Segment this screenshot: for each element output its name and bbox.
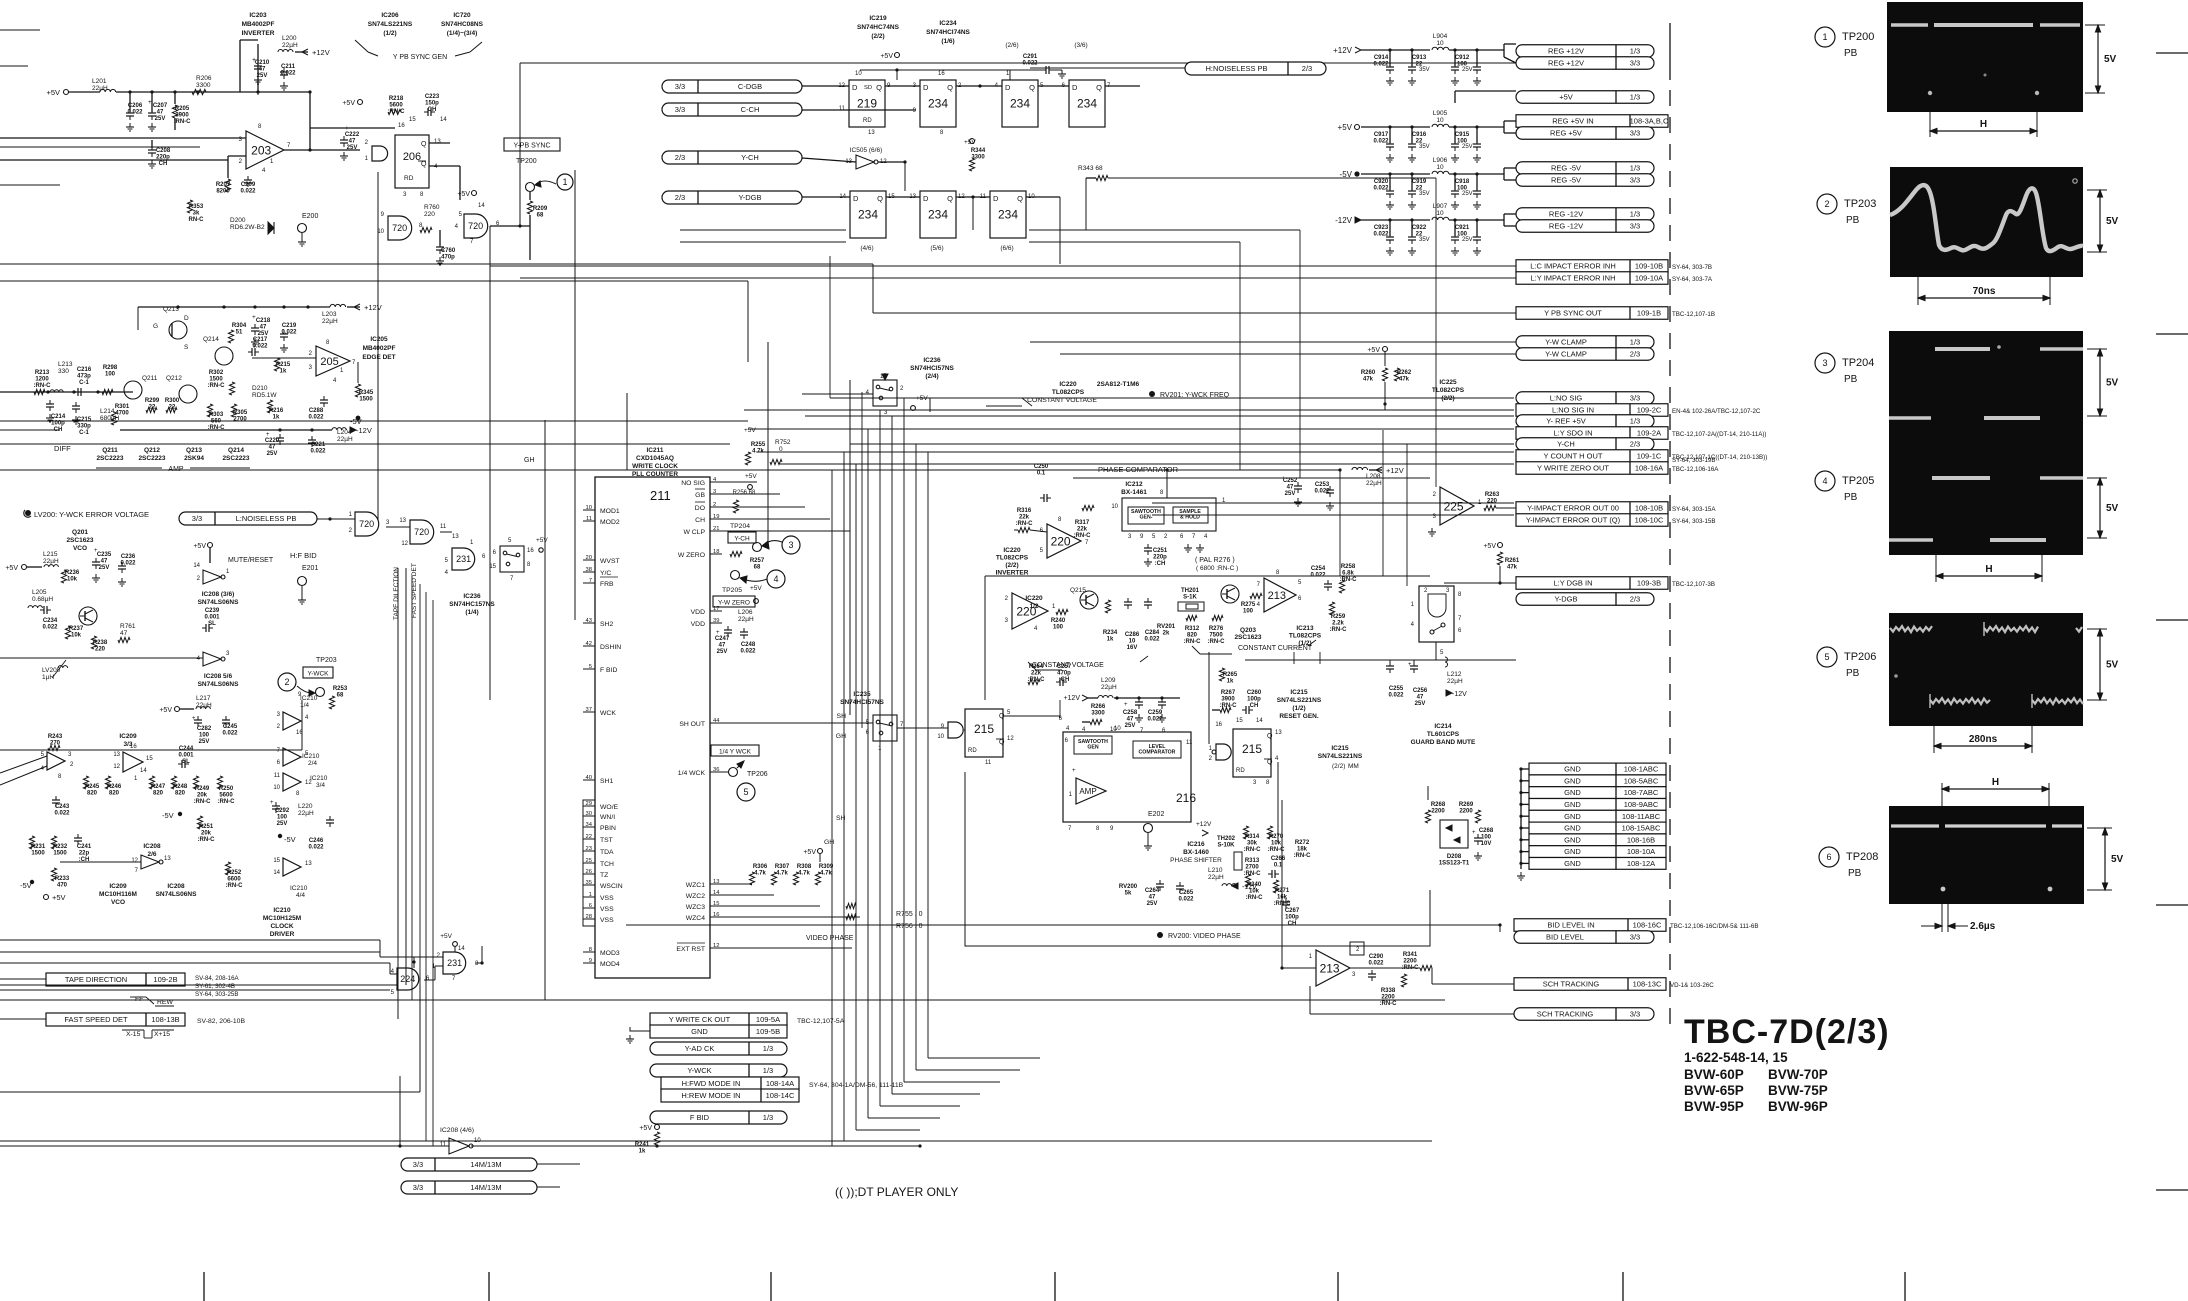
svg-text:SN74HC157NS: SN74HC157NS bbox=[449, 601, 495, 608]
svg-text:IC720: IC720 bbox=[453, 12, 471, 19]
svg-text:C244: C244 bbox=[179, 746, 194, 752]
svg-text:1k: 1k bbox=[1227, 679, 1234, 685]
svg-text:470p: 470p bbox=[441, 255, 455, 261]
svg-text:5: 5 bbox=[1824, 652, 1829, 662]
svg-text:GND: GND bbox=[1564, 847, 1581, 856]
svg-text:L214: L214 bbox=[100, 408, 115, 415]
svg-text:+: + bbox=[192, 716, 196, 722]
svg-text:C234: C234 bbox=[43, 618, 58, 624]
svg-text:(2/2): (2/2) bbox=[1005, 562, 1018, 569]
svg-text:IC215: IC215 bbox=[1331, 745, 1349, 752]
svg-text:R243: R243 bbox=[48, 734, 63, 740]
svg-text:1/3: 1/3 bbox=[1630, 338, 1640, 347]
svg-text:IC210: IC210 bbox=[273, 907, 291, 914]
svg-text:PB: PB bbox=[1844, 48, 1858, 59]
svg-text:C919: C919 bbox=[1412, 179, 1427, 185]
svg-text:D: D bbox=[993, 194, 999, 203]
svg-text:1: 1 bbox=[562, 177, 567, 187]
svg-text:RD: RD bbox=[968, 748, 977, 754]
svg-text:22µH: 22µH bbox=[196, 702, 212, 709]
svg-text:10V: 10V bbox=[1481, 841, 1492, 847]
svg-text:22µH: 22µH bbox=[337, 436, 353, 443]
svg-text:RD: RD bbox=[1236, 768, 1245, 774]
svg-text:PHASE SHIFTER: PHASE SHIFTER bbox=[1170, 857, 1222, 864]
svg-text:+5V: +5V bbox=[745, 473, 757, 480]
svg-text:C246: C246 bbox=[309, 838, 324, 844]
svg-text:SN74HC74NS: SN74HC74NS bbox=[857, 24, 900, 31]
svg-text:RV200: RV200 bbox=[1119, 884, 1138, 890]
svg-text:+5V: +5V bbox=[536, 537, 548, 544]
svg-text:+12V: +12V bbox=[1063, 695, 1080, 702]
svg-text:R259: R259 bbox=[1331, 614, 1346, 620]
svg-text:R756 . 0: R756 . 0 bbox=[896, 923, 923, 930]
svg-text:Y PB SYNC GEN: Y PB SYNC GEN bbox=[393, 54, 447, 61]
svg-text:2: 2 bbox=[284, 677, 289, 687]
svg-text:2.2k: 2.2k bbox=[1332, 621, 1344, 627]
svg-text:IC210: IC210 bbox=[310, 775, 328, 782]
svg-text:C235: C235 bbox=[97, 552, 112, 558]
svg-text:6.8k: 6.8k bbox=[1342, 571, 1354, 577]
svg-text:R267: R267 bbox=[1221, 690, 1236, 696]
svg-text:C217: C217 bbox=[253, 337, 268, 343]
svg-text:TBC-12,107-1B: TBC-12,107-1B bbox=[1672, 311, 1715, 318]
svg-text:30k: 30k bbox=[1247, 841, 1258, 847]
svg-text:Q211: Q211 bbox=[142, 375, 158, 382]
svg-text:100p: 100p bbox=[1247, 697, 1261, 703]
svg-text:100: 100 bbox=[1481, 835, 1492, 841]
svg-text:4: 4 bbox=[773, 574, 778, 584]
svg-text:5V: 5V bbox=[2104, 54, 2117, 65]
svg-text:IC208 5/6: IC208 5/6 bbox=[204, 673, 233, 680]
svg-text:NO SIG: NO SIG bbox=[681, 480, 705, 487]
svg-text:GND: GND bbox=[1564, 859, 1581, 868]
svg-text:H:NOISELESS PB: H:NOISELESS PB bbox=[1205, 64, 1267, 73]
svg-text:H:REW MODE IN: H:REW MODE IN bbox=[681, 1091, 740, 1100]
svg-text:22µH: 22µH bbox=[1208, 874, 1224, 881]
svg-text:R345: R345 bbox=[359, 390, 374, 396]
svg-text:R234: R234 bbox=[1103, 630, 1118, 636]
svg-text:3300: 3300 bbox=[1091, 711, 1105, 717]
svg-text:(( ));DT PLAYER ONLY: (( ));DT PLAYER ONLY bbox=[835, 1185, 958, 1199]
svg-text:WZC1: WZC1 bbox=[686, 882, 705, 889]
svg-text:WCK: WCK bbox=[600, 710, 616, 717]
svg-text:10: 10 bbox=[1436, 210, 1444, 217]
svg-text:0.022: 0.022 bbox=[1310, 573, 1326, 579]
svg-text:SN74LS221NS: SN74LS221NS bbox=[1318, 753, 1363, 760]
svg-text:13: 13 bbox=[113, 752, 120, 758]
svg-text:Q201: Q201 bbox=[72, 529, 88, 536]
svg-text:L904: L904 bbox=[1433, 33, 1448, 40]
svg-text:IC210: IC210 bbox=[300, 695, 318, 702]
svg-text:R241: R241 bbox=[635, 1142, 650, 1148]
svg-text:IC208 (4/6): IC208 (4/6) bbox=[440, 1127, 474, 1134]
svg-text:+: + bbox=[345, 125, 349, 132]
svg-text:R260: R260 bbox=[1361, 370, 1376, 376]
svg-text:35V: 35V bbox=[1419, 237, 1430, 243]
svg-text:47: 47 bbox=[349, 139, 356, 145]
svg-text:(2/6): (2/6) bbox=[1005, 42, 1018, 49]
svg-text:SN74HCI74NS: SN74HCI74NS bbox=[926, 29, 970, 36]
svg-text:C912: C912 bbox=[1455, 55, 1470, 61]
svg-text:109-1C: 109-1C bbox=[1637, 452, 1662, 461]
svg-text:Q: Q bbox=[1029, 83, 1035, 92]
svg-text:F BID: F BID bbox=[600, 667, 617, 674]
svg-text:47: 47 bbox=[1287, 485, 1294, 491]
svg-text:C914: C914 bbox=[1374, 55, 1389, 61]
svg-text:R265: R265 bbox=[1223, 672, 1238, 678]
svg-text:R341: R341 bbox=[1403, 952, 1418, 958]
svg-text::RN-C: :RN-C bbox=[1330, 627, 1348, 633]
svg-text:3/3: 3/3 bbox=[1630, 1010, 1640, 1019]
svg-text:TP205: TP205 bbox=[1842, 475, 1874, 487]
svg-text:2200: 2200 bbox=[1459, 809, 1473, 815]
svg-text:108-7ABC: 108-7ABC bbox=[1624, 788, 1659, 797]
svg-text:TP205: TP205 bbox=[722, 587, 742, 594]
svg-text:205: 205 bbox=[320, 356, 338, 368]
svg-text:H:F BID: H:F BID bbox=[290, 551, 317, 560]
svg-text:2700: 2700 bbox=[233, 417, 247, 423]
svg-text:100: 100 bbox=[277, 815, 288, 821]
svg-text:1500: 1500 bbox=[359, 397, 373, 403]
svg-text:SY-64, 303-19B: SY-64, 303-19B bbox=[1672, 457, 1715, 464]
svg-text:2200: 2200 bbox=[1431, 809, 1445, 815]
svg-text:R306: R306 bbox=[753, 864, 768, 870]
svg-text:R255: R255 bbox=[751, 442, 766, 448]
svg-text:C255: C255 bbox=[1389, 686, 1404, 692]
svg-text:0.022: 0.022 bbox=[1178, 897, 1194, 903]
svg-text:L906: L906 bbox=[1433, 157, 1448, 164]
svg-text:MB4002PF: MB4002PF bbox=[242, 21, 275, 28]
svg-text:68: 68 bbox=[337, 693, 344, 699]
svg-text::RN-C: :RN-C bbox=[1244, 871, 1262, 877]
svg-text:5V: 5V bbox=[2111, 854, 2124, 865]
svg-text:16V: 16V bbox=[1127, 645, 1138, 651]
svg-text:D210: D210 bbox=[252, 385, 268, 392]
svg-text:25V: 25V bbox=[99, 565, 110, 571]
svg-text:820: 820 bbox=[153, 791, 164, 797]
svg-text:C223: C223 bbox=[425, 94, 440, 100]
svg-text:3/3: 3/3 bbox=[413, 1183, 423, 1192]
svg-text:L203: L203 bbox=[322, 311, 337, 318]
svg-text:C254: C254 bbox=[1311, 566, 1326, 572]
svg-text:BID LEVEL: BID LEVEL bbox=[1546, 933, 1584, 942]
svg-text:C208: C208 bbox=[156, 148, 171, 154]
svg-text:D: D bbox=[923, 83, 929, 92]
svg-text:1k: 1k bbox=[273, 415, 280, 421]
svg-text:1k: 1k bbox=[639, 1149, 646, 1155]
svg-text:IC205: IC205 bbox=[370, 336, 388, 343]
svg-text:1k: 1k bbox=[1107, 637, 1114, 643]
svg-text:C267: C267 bbox=[1285, 908, 1300, 914]
svg-text::RN-C: :RN-C bbox=[174, 119, 192, 125]
svg-text:1/3: 1/3 bbox=[1630, 93, 1640, 102]
svg-text:R209: R209 bbox=[533, 206, 548, 212]
svg-text:5600: 5600 bbox=[389, 103, 403, 109]
svg-text:Y/C: Y/C bbox=[600, 570, 611, 577]
svg-text:10: 10 bbox=[937, 734, 944, 740]
svg-text:GND: GND bbox=[691, 1027, 708, 1036]
svg-text:47: 47 bbox=[260, 325, 267, 331]
svg-text:IC219: IC219 bbox=[869, 15, 887, 22]
svg-text:TCH: TCH bbox=[600, 861, 614, 868]
svg-text:VCO: VCO bbox=[111, 899, 125, 906]
svg-text:+5V: +5V bbox=[5, 565, 18, 572]
svg-text:C260: C260 bbox=[1247, 690, 1262, 696]
svg-text:108-11ABC: 108-11ABC bbox=[1622, 812, 1661, 821]
svg-text:S-1K: S-1K bbox=[1183, 595, 1197, 601]
svg-text:GND: GND bbox=[1564, 800, 1581, 809]
svg-text:R761: R761 bbox=[120, 623, 136, 630]
svg-text:C291: C291 bbox=[1023, 54, 1038, 60]
svg-text:470: 470 bbox=[57, 883, 68, 889]
svg-text:S-10K: S-10K bbox=[1217, 843, 1235, 849]
svg-text:25V: 25V bbox=[1285, 491, 1296, 497]
svg-text:720: 720 bbox=[359, 519, 374, 529]
svg-text:2SC1623: 2SC1623 bbox=[1234, 634, 1261, 641]
svg-text:2/3: 2/3 bbox=[1630, 440, 1640, 449]
svg-text:100: 100 bbox=[1243, 609, 1254, 615]
svg-text::RN-C: :RN-C bbox=[1268, 847, 1286, 853]
svg-text:213: 213 bbox=[1268, 590, 1286, 602]
svg-text:+5V: +5V bbox=[1483, 543, 1496, 550]
svg-text:25V: 25V bbox=[155, 116, 166, 122]
svg-text:+12V: +12V bbox=[364, 303, 382, 312]
svg-text:C-1: C-1 bbox=[79, 380, 89, 386]
svg-text:GND: GND bbox=[1564, 776, 1581, 785]
svg-text:RD5.1W: RD5.1W bbox=[252, 392, 277, 399]
svg-text:SY-64, 303-25B: SY-64, 303-25B bbox=[195, 991, 238, 998]
svg-text:R299: R299 bbox=[145, 398, 160, 404]
svg-text:F BID: F BID bbox=[690, 1113, 710, 1122]
svg-text:11: 11 bbox=[274, 773, 281, 779]
svg-text:R272: R272 bbox=[1295, 840, 1310, 846]
svg-text:AMP: AMP bbox=[1079, 787, 1096, 796]
svg-text:3/3: 3/3 bbox=[192, 514, 202, 523]
svg-text:R338: R338 bbox=[1381, 988, 1396, 994]
svg-text:C239: C239 bbox=[205, 608, 220, 614]
svg-text:PB: PB bbox=[1844, 492, 1858, 503]
svg-text:PB: PB bbox=[1844, 374, 1858, 385]
svg-text:C241: C241 bbox=[77, 844, 92, 850]
svg-text:GH: GH bbox=[824, 839, 834, 846]
svg-text:R263: R263 bbox=[1485, 492, 1500, 498]
svg-text:TL082CPS: TL082CPS bbox=[1052, 389, 1085, 396]
svg-text:C913: C913 bbox=[1412, 55, 1427, 61]
svg-text:TP203: TP203 bbox=[1844, 198, 1876, 210]
svg-text:C922: C922 bbox=[1412, 225, 1427, 231]
svg-text:47k: 47k bbox=[1399, 377, 1410, 383]
svg-text:1/3: 1/3 bbox=[1630, 417, 1640, 426]
svg-text:IC208: IC208 bbox=[167, 883, 185, 890]
svg-text:5V: 5V bbox=[2106, 660, 2119, 671]
svg-text:0.022: 0.022 bbox=[740, 649, 756, 655]
svg-text:MOD4: MOD4 bbox=[600, 961, 620, 968]
svg-text:-12V: -12V bbox=[356, 426, 372, 435]
svg-text:3/4: 3/4 bbox=[316, 782, 325, 789]
svg-text:3k: 3k bbox=[193, 211, 200, 217]
svg-text:L209: L209 bbox=[1101, 677, 1116, 684]
svg-text:BX-1460: BX-1460 bbox=[1183, 849, 1209, 856]
svg-text:211: 211 bbox=[650, 488, 671, 503]
svg-text:CXD1045AQ: CXD1045AQ bbox=[636, 455, 674, 462]
svg-text:C256: C256 bbox=[1413, 688, 1428, 694]
svg-text:PB: PB bbox=[1848, 868, 1862, 879]
svg-text:L210: L210 bbox=[1208, 867, 1223, 874]
svg-text:L:Y IMPACT ERROR INH: L:Y IMPACT ERROR INH bbox=[1530, 274, 1615, 283]
svg-text:108-13B: 108-13B bbox=[151, 1015, 179, 1024]
svg-text:+: + bbox=[716, 630, 720, 636]
svg-text:C-CH: C-CH bbox=[741, 105, 760, 114]
svg-text:108-15ABC: 108-15ABC bbox=[1622, 824, 1661, 833]
svg-text:330: 330 bbox=[58, 368, 69, 375]
svg-text:1/3: 1/3 bbox=[763, 1113, 773, 1122]
svg-text:0.022: 0.022 bbox=[1022, 61, 1038, 67]
svg-text:C251: C251 bbox=[1153, 548, 1168, 554]
svg-text:16: 16 bbox=[527, 548, 534, 554]
svg-text:Q212: Q212 bbox=[144, 447, 160, 454]
svg-text:R298: R298 bbox=[103, 365, 118, 371]
svg-text:3/3: 3/3 bbox=[1630, 129, 1640, 138]
svg-text:16: 16 bbox=[1215, 722, 1222, 728]
svg-text:1-622-548-14, 15: 1-622-548-14, 15 bbox=[1684, 1050, 1788, 1065]
svg-text:220: 220 bbox=[424, 211, 435, 218]
svg-text:VCO: VCO bbox=[73, 545, 87, 552]
svg-text:13: 13 bbox=[452, 534, 459, 540]
svg-text:BVW-70P: BVW-70P bbox=[1768, 1067, 1828, 1082]
svg-text:+: + bbox=[1408, 662, 1412, 668]
svg-text:14M/13M: 14M/13M bbox=[470, 1160, 501, 1169]
svg-text:47: 47 bbox=[269, 445, 276, 451]
svg-text:+: + bbox=[1472, 830, 1476, 836]
svg-text:H: H bbox=[1985, 564, 1992, 575]
svg-text:109-2A: 109-2A bbox=[1637, 429, 1661, 438]
svg-text:25V: 25V bbox=[1462, 191, 1473, 197]
svg-text:R213: R213 bbox=[35, 370, 50, 376]
svg-text:47k: 47k bbox=[1507, 565, 1518, 571]
svg-text:D: D bbox=[1005, 83, 1011, 92]
svg-text:14: 14 bbox=[273, 870, 280, 876]
svg-text:13: 13 bbox=[305, 861, 312, 867]
svg-text:Q: Q bbox=[421, 141, 427, 148]
svg-text:Q213: Q213 bbox=[186, 447, 202, 454]
svg-text:C-1: C-1 bbox=[79, 430, 89, 436]
svg-text:Q: Q bbox=[947, 194, 953, 203]
svg-text:47: 47 bbox=[157, 110, 164, 116]
svg-text:-12V: -12V bbox=[1242, 884, 1257, 891]
svg-text:10: 10 bbox=[1436, 164, 1444, 171]
svg-text:+5V: +5V bbox=[52, 893, 66, 902]
svg-text:1k: 1k bbox=[280, 369, 287, 375]
svg-text:MUTE/RESET: MUTE/RESET bbox=[228, 557, 274, 564]
svg-text:68: 68 bbox=[754, 565, 761, 571]
svg-text:22µH: 22µH bbox=[322, 318, 338, 325]
svg-text:C286: C286 bbox=[1125, 632, 1140, 638]
svg-text:BVW-95P: BVW-95P bbox=[1684, 1099, 1744, 1114]
svg-text:SH1: SH1 bbox=[600, 778, 613, 785]
svg-text::RN-C: :RN-C bbox=[1380, 1001, 1398, 1007]
svg-text:25V: 25V bbox=[267, 451, 278, 457]
svg-text:TBC-12,107-5A: TBC-12,107-5A bbox=[797, 1018, 845, 1025]
svg-text:0.022: 0.022 bbox=[42, 625, 58, 631]
svg-text:IC209: IC209 bbox=[109, 883, 127, 890]
svg-text:WVST: WVST bbox=[600, 558, 620, 565]
svg-text:100: 100 bbox=[199, 733, 210, 739]
svg-text:10k: 10k bbox=[71, 633, 82, 639]
svg-text:11: 11 bbox=[839, 106, 846, 112]
svg-text::RN-C: :RN-C bbox=[1246, 895, 1264, 901]
svg-text:R258: R258 bbox=[1341, 564, 1356, 570]
svg-text:C257: C257 bbox=[1057, 664, 1072, 670]
svg-text:1/3: 1/3 bbox=[1630, 47, 1640, 56]
svg-text:R266: R266 bbox=[1091, 704, 1106, 710]
svg-text:14: 14 bbox=[478, 203, 485, 209]
svg-text:C243: C243 bbox=[55, 804, 70, 810]
svg-text:108-1ABC: 108-1ABC bbox=[1624, 765, 1659, 774]
svg-text:GH: GH bbox=[836, 733, 846, 740]
svg-text:-12V: -12V bbox=[1335, 216, 1353, 225]
svg-text:D208: D208 bbox=[1447, 854, 1462, 860]
svg-text::RN-C: :RN-C bbox=[226, 883, 244, 889]
svg-text:10: 10 bbox=[273, 785, 280, 791]
svg-text:215: 215 bbox=[1242, 742, 1262, 756]
svg-text::RN-C: :RN-C bbox=[1244, 847, 1262, 853]
svg-text:GND: GND bbox=[1564, 765, 1581, 774]
svg-text:MOD3: MOD3 bbox=[600, 950, 620, 957]
svg-text:L:C IMPACT ERROR INH: L:C IMPACT ERROR INH bbox=[1530, 262, 1616, 271]
svg-text::RN-C: :RN-C bbox=[1074, 533, 1092, 539]
svg-text:TAPE DILECTION: TAPE DILECTION bbox=[393, 567, 400, 620]
svg-text:213: 213 bbox=[1320, 961, 1340, 975]
svg-text:REG +5V: REG +5V bbox=[1550, 129, 1582, 138]
svg-text:220p: 220p bbox=[1153, 555, 1167, 561]
svg-text:10k: 10k bbox=[67, 577, 78, 583]
svg-text:IC209: IC209 bbox=[119, 733, 137, 740]
svg-text:GUARD BAND MUTE: GUARD BAND MUTE bbox=[1411, 739, 1476, 746]
svg-text:TP203: TP203 bbox=[316, 657, 337, 664]
svg-text:14: 14 bbox=[193, 563, 200, 569]
svg-text:TP204: TP204 bbox=[1842, 357, 1874, 369]
svg-text:3/3: 3/3 bbox=[675, 82, 685, 91]
svg-text:820: 820 bbox=[109, 791, 120, 797]
svg-text:+5V: +5V bbox=[46, 88, 60, 97]
svg-text:R752: R752 bbox=[775, 439, 791, 446]
svg-text:2SA812-T1M6: 2SA812-T1M6 bbox=[1097, 381, 1140, 388]
svg-text:12: 12 bbox=[1007, 736, 1014, 742]
svg-text:216: 216 bbox=[1176, 791, 1196, 805]
svg-text:GND: GND bbox=[1564, 824, 1581, 833]
svg-text:C250: C250 bbox=[1034, 464, 1049, 470]
svg-text:3/3: 3/3 bbox=[1630, 59, 1640, 68]
svg-text:RN-C: RN-C bbox=[189, 217, 205, 223]
svg-text:+5V: +5V bbox=[880, 53, 893, 60]
svg-text:820: 820 bbox=[87, 791, 98, 797]
svg-text:(3/6): (3/6) bbox=[1074, 42, 1087, 49]
svg-text:203: 203 bbox=[251, 143, 271, 157]
svg-text:REG -12V: REG -12V bbox=[1549, 222, 1583, 231]
svg-text::RN-C: :RN-C bbox=[1184, 639, 1202, 645]
svg-text:0.022: 0.022 bbox=[308, 845, 324, 851]
svg-text:3/3: 3/3 bbox=[413, 1160, 423, 1169]
svg-text:2/3: 2/3 bbox=[675, 193, 685, 202]
svg-text::RN-C: :RN-C bbox=[198, 837, 216, 843]
svg-text:5600: 5600 bbox=[219, 793, 233, 799]
svg-text:REG +12V: REG +12V bbox=[1548, 59, 1584, 68]
svg-text:108-16A: 108-16A bbox=[1635, 464, 1663, 473]
svg-text:3/3: 3/3 bbox=[1630, 176, 1640, 185]
svg-text:22µH: 22µH bbox=[43, 558, 59, 565]
svg-text:REG +5V IN: REG +5V IN bbox=[1552, 117, 1593, 126]
svg-text:R755 . 0: R755 . 0 bbox=[896, 911, 923, 918]
